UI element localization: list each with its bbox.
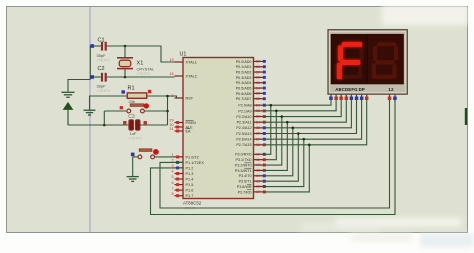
pin 30 ALE (left)	[169, 123, 193, 129]
svg-text:P0.6/AD6: P0.6/AD6	[236, 92, 252, 96]
node: segment G junction	[303, 138, 306, 141]
svg-text:P2.1/A9: P2.1/A9	[238, 109, 251, 113]
svg-text:9: 9	[171, 94, 173, 98]
wire: crystal bottom stub	[124, 69, 126, 77]
svg-text:37: 37	[256, 70, 260, 74]
svg-text:R1: R1	[128, 86, 135, 92]
svg-text:19: 19	[169, 58, 173, 62]
wire: RST node to RST pin	[168, 96, 184, 98]
svg-text:CRYSTAL: CRYSTAL	[137, 67, 155, 72]
button (P1.0 input)	[138, 149, 159, 159]
svg-text:<TEXT>: <TEXT>	[97, 59, 112, 63]
svg-text:38: 38	[256, 65, 260, 69]
svg-text:28: 28	[256, 143, 260, 147]
svg-text:PSEN: PSEN	[186, 121, 197, 125]
vertical blue guide line	[89, 7, 91, 232]
svg-text:P2.7/A15: P2.7/A15	[236, 143, 251, 147]
pin 31 EA (left)	[169, 127, 191, 133]
svg-text:P1.4: P1.4	[186, 177, 194, 181]
pin 34 P0.5/AD5 (right)	[236, 86, 266, 90]
display pin B	[334, 94, 338, 100]
svg-text:P3.6/WR: P3.6/WR	[237, 185, 252, 189]
wire: button1 left drop	[103, 111, 105, 125]
pin 12 P3.2/INT0 (right)	[235, 163, 266, 168]
wire: button1 left lead	[104, 110, 127, 112]
pin 37 P0.2/AD2 (right)	[236, 70, 266, 74]
node: segment A junction	[270, 104, 273, 107]
pin 19 XTAL1 (left)	[169, 58, 196, 64]
svg-text:P3.0/RXD: P3.0/RXD	[235, 153, 252, 157]
svg-text:ABCDEFG: ABCDEFG	[335, 87, 358, 92]
pin state marker (C2 left)	[90, 75, 94, 79]
svg-text:24: 24	[256, 120, 260, 124]
pin 18 XTAL2 (left)	[169, 72, 196, 78]
svg-text:32: 32	[256, 97, 260, 101]
pin state marker (button2 left)	[131, 153, 135, 157]
node: segment B junction	[275, 110, 278, 113]
wire stub at right sheet edge	[465, 108, 467, 125]
svg-text:16: 16	[256, 185, 260, 189]
wire: left rail vertical (C1/C2 ground net)	[89, 46, 91, 80]
7-segment display body	[328, 30, 407, 95]
svg-text:6: 6	[171, 181, 173, 185]
wire: ground to R1 left	[90, 96, 128, 110]
node: VCC rail / button junction	[103, 124, 106, 127]
pin state marker (C1 left)	[90, 44, 94, 48]
svg-text:XTAL2: XTAL2	[186, 74, 197, 78]
wire: button2 left lead	[133, 156, 138, 158]
wire: C1 to XTAL1	[107, 46, 175, 62]
svg-text:P2.3/A11: P2.3/A11	[237, 121, 252, 125]
svg-text:12: 12	[256, 163, 260, 167]
svg-text:P3.1/TXD: P3.1/TXD	[236, 158, 252, 162]
svg-text:15: 15	[256, 179, 260, 183]
pin 17 P3.7/RD (right)	[238, 190, 266, 195]
capacitor C1	[101, 42, 107, 51]
svg-text:P3.5/T1: P3.5/T1	[239, 180, 252, 184]
pin 16 P3.6/WR (right)	[237, 184, 266, 189]
pin state marker (R1 right)	[148, 90, 151, 93]
svg-text:C1: C1	[98, 37, 105, 43]
svg-text:11: 11	[256, 158, 260, 162]
svg-text:XTAL1: XTAL1	[186, 60, 197, 64]
svg-text:P0.0/AD0: P0.0/AD0	[236, 60, 252, 64]
pin 14 P3.4/T0 (right)	[239, 174, 266, 178]
svg-text:35: 35	[256, 81, 260, 85]
svg-text:P1.3: P1.3	[186, 172, 194, 176]
svg-text:33: 33	[256, 92, 260, 96]
wire: digit 2 net (P1.2 to display)	[151, 94, 396, 214]
svg-text:39: 39	[256, 60, 260, 64]
node: crystal bottom junction	[124, 76, 127, 79]
wire: segment E net (P2.4 / P3.4 / display)	[263, 94, 351, 128]
pin 2 P1.1/T2EX (left)	[171, 159, 204, 165]
svg-text:RST: RST	[186, 96, 194, 100]
node: segment E junction	[292, 127, 295, 130]
svg-text:7: 7	[171, 186, 173, 190]
wire: button2 left to ground	[132, 157, 134, 176]
pin 22 P2.1/A9 (right)	[238, 109, 265, 113]
pin 27 P2.6/A14 (right)	[236, 137, 265, 141]
svg-text:12: 12	[388, 87, 394, 92]
wire: digit 1 net (P1.1 to display)	[160, 94, 390, 208]
svg-text:21: 21	[256, 103, 260, 107]
node: crystal top junction	[124, 45, 127, 48]
svg-text:P3.4/T0: P3.4/T0	[239, 174, 252, 178]
svg-text:P0.1/AD1: P0.1/AD1	[236, 65, 252, 69]
pin state marker (C3 left)	[123, 121, 126, 124]
ground (P1.0 button)	[127, 177, 139, 182]
capacitor C3	[129, 120, 140, 130]
svg-text:1uF: 1uF	[130, 131, 137, 136]
svg-text:<TEXT>: <TEXT>	[137, 72, 152, 76]
svg-text:5: 5	[171, 175, 173, 179]
node: segment C junction	[281, 115, 284, 118]
wire: segment B net (P2.1 / P3.1 / display)	[263, 94, 336, 111]
svg-text:P1.6: P1.6	[186, 189, 194, 193]
resistor R1	[127, 93, 146, 98]
pin 33 P0.6/AD6 (right)	[236, 92, 266, 96]
pin 38 P0.1/AD1 (right)	[236, 65, 266, 69]
pin 6 P1.5 (left)	[171, 181, 193, 187]
wire: C2 left plate stub	[90, 76, 101, 78]
pin 9 RST (left)	[171, 94, 193, 100]
pin 13 P3.3/INT1 (right)	[235, 168, 266, 173]
svg-text:P0.7/AD7: P0.7/AD7	[236, 97, 252, 101]
svg-text:P0.2/AD2: P0.2/AD2	[236, 70, 252, 74]
svg-text:P0.5/AD5: P0.5/AD5	[236, 86, 252, 90]
svg-text:31: 31	[169, 127, 173, 131]
svg-text:25: 25	[256, 126, 260, 130]
wire: segment C net (P2.2 / P3.2 / display)	[263, 94, 341, 116]
pin state marker (button1 left)	[120, 106, 123, 109]
pin 39 P0.0/AD0 (right)	[236, 60, 266, 64]
pin 10 P3.0/RXD (right)	[235, 153, 266, 157]
pin 5 P1.4 (left)	[171, 175, 193, 181]
display pin A	[329, 94, 333, 100]
svg-text:14: 14	[256, 174, 260, 178]
node: RST/R1 junction	[166, 95, 169, 98]
svg-text:P3.3/INT1: P3.3/INT1	[235, 169, 252, 173]
display pin F	[355, 94, 359, 100]
svg-text:AT89C52: AT89C52	[183, 201, 202, 206]
pin 3 P1.2 (left)	[171, 164, 193, 170]
pin 36 P0.3/AD3 (right)	[236, 76, 266, 80]
wire: segment D net (P2.3 / P3.3 / display)	[263, 94, 346, 122]
svg-text:P2.4/A12: P2.4/A12	[236, 126, 251, 130]
wire: segment G net (P2.6 / P3.6 / display)	[263, 94, 362, 139]
svg-text:26: 26	[256, 132, 260, 136]
wire: segment DP net (P2.7 / P3.7 / display)	[263, 94, 367, 145]
power VCC arrow	[64, 103, 73, 125]
svg-text:22: 22	[256, 109, 260, 113]
pin 24 P2.3/A11 (right)	[237, 120, 266, 124]
display pin DP	[365, 94, 369, 100]
pin 4 P1.3 (left)	[171, 170, 193, 176]
display pin digit1	[388, 94, 392, 102]
svg-text:P2.2/A10: P2.2/A10	[236, 115, 251, 119]
svg-text:P3.7/RD: P3.7/RD	[238, 190, 252, 194]
pin 32 P0.7/AD7 (right)	[236, 97, 266, 101]
button (reset, across C3)	[127, 103, 149, 113]
pin 11 P3.1/TXD (right)	[236, 158, 266, 162]
pin 28 P2.7/A15 (right)	[236, 143, 265, 147]
wire: button2 right lead to P1.0	[155, 156, 184, 158]
display digit 1 (showing F)	[340, 46, 364, 79]
svg-text:P1.5: P1.5	[186, 183, 194, 187]
svg-text:13: 13	[256, 169, 260, 173]
pin 23 P2.2/A10 (right)	[236, 115, 265, 119]
svg-text:4: 4	[171, 170, 173, 174]
mcu U1 AT89C52 body	[183, 58, 254, 199]
display pin C	[339, 94, 343, 100]
svg-text:30pF: 30pF	[97, 53, 107, 58]
display pin digit2	[393, 94, 397, 102]
svg-text:18: 18	[169, 72, 173, 76]
pin 35 P0.4/AD4 (right)	[236, 81, 266, 85]
svg-text:1: 1	[171, 153, 173, 157]
pin state marker (R1 left)	[122, 90, 125, 93]
svg-text:P2.6/A14: P2.6/A14	[236, 138, 251, 142]
pin 1 P1.0/T2 (left)	[171, 153, 198, 159]
wire: R1 right to RST node	[147, 95, 168, 97]
svg-text:20k: 20k	[129, 99, 135, 104]
svg-text:EA: EA	[186, 129, 192, 133]
svg-text:C3: C3	[128, 114, 135, 120]
crystal X1	[117, 58, 133, 69]
pin 29 PSEN (left)	[169, 119, 196, 125]
wire: segment F net (P2.5 / P3.5 / display)	[263, 94, 357, 133]
display pin G	[360, 94, 364, 100]
wire: rail to ground	[68, 80, 90, 92]
node: RST/button junction	[166, 110, 169, 113]
display digit 2 (all segments dim)	[372, 42, 398, 79]
svg-text:23: 23	[256, 115, 260, 119]
svg-text:<TEXT>: <TEXT>	[97, 89, 112, 93]
pin state marker (C3 right)	[144, 121, 147, 124]
ground (oscillator caps)	[62, 92, 75, 97]
node: segment D junction	[286, 121, 289, 124]
svg-text:29: 29	[169, 119, 173, 123]
svg-text:<TEXT>: <TEXT>	[129, 137, 144, 141]
ground (R1 pull-down)	[84, 110, 96, 115]
svg-text:17: 17	[256, 190, 260, 194]
wire: C3 right lead	[140, 124, 168, 126]
svg-text:P1.7: P1.7	[186, 194, 194, 198]
svg-text:P1.0/T2: P1.0/T2	[186, 155, 199, 159]
svg-text:27: 27	[256, 137, 260, 141]
svg-text:P0.4/AD4: P0.4/AD4	[236, 81, 252, 85]
svg-text:8: 8	[171, 192, 173, 196]
wire: button1 right lead	[144, 110, 167, 112]
pin 26 P2.5/A13 (right)	[236, 132, 265, 136]
svg-text:DP: DP	[359, 87, 365, 92]
svg-text:30pF: 30pF	[97, 84, 107, 89]
wire: VCC rail to C3 left	[68, 124, 129, 126]
wire: C2 to XTAL2	[107, 76, 175, 78]
wire: crystal top stub	[124, 46, 126, 57]
capacitor C2	[101, 73, 107, 82]
wire: C1 left plate to left rail	[90, 45, 101, 47]
pin 15 P3.5/T1 (right)	[239, 179, 266, 183]
pin 21 P2.0/A8 (right)	[238, 103, 265, 107]
svg-text:36: 36	[256, 76, 260, 80]
svg-text:P2.0/A8: P2.0/A8	[238, 104, 251, 108]
display pin E	[350, 94, 354, 100]
pin 8 P1.7 (left)	[171, 192, 193, 198]
svg-text:P2.5/A13: P2.5/A13	[236, 132, 251, 136]
svg-text:P1.1/T2EX: P1.1/T2EX	[186, 161, 205, 165]
svg-text:U1: U1	[180, 52, 187, 58]
wire: RST vertical (button/C3 join)	[167, 96, 169, 125]
svg-text:C2: C2	[98, 66, 105, 72]
svg-text:P1.2: P1.2	[186, 166, 194, 170]
svg-text:34: 34	[256, 86, 260, 90]
pin 7 P1.6 (left)	[171, 186, 193, 192]
display pin D	[345, 94, 349, 100]
node: segment DP junction	[308, 144, 311, 147]
pin 25 P2.4/A12 (right)	[236, 126, 265, 130]
svg-text:P0.3/AD3: P0.3/AD3	[236, 76, 252, 80]
svg-text:10: 10	[256, 153, 260, 157]
svg-text:P3.2/INT0: P3.2/INT0	[235, 163, 252, 167]
node: segment F junction	[297, 132, 300, 135]
wire: segment A net (P2.0 / P3.0 / display)	[263, 94, 331, 105]
